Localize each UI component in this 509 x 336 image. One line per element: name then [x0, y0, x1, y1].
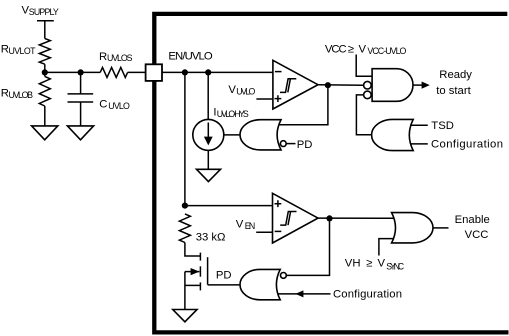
- node EN internal 2: [205, 69, 211, 75]
- resistor RUVLOB: [39, 76, 50, 106]
- wire U6 output down to NOR U5 bubble: [286, 218, 329, 275]
- op-amp U6 EN comparator: [273, 193, 319, 243]
- node EN internal 1: [182, 69, 188, 75]
- wire TSD input: [410, 124, 428, 126]
- node U1 output: [325, 82, 331, 88]
- svg-text:UVLOT: UVLOT: [9, 46, 37, 56]
- wire U1 output: [318, 84, 364, 87]
- svg-text:SUPPLY: SUPPLY: [29, 7, 59, 17]
- wire junction to comparator plus: [185, 205, 273, 207]
- node cap junction: [78, 69, 84, 75]
- resistor 33k: [179, 214, 190, 243]
- svg-text:R: R: [99, 51, 107, 63]
- svg-text:UVLOS: UVLOS: [107, 53, 133, 63]
- svg-text:V: V: [378, 258, 386, 270]
- wire cap node down: [80, 72, 82, 94]
- bubble NOR U5: [281, 273, 287, 279]
- wire cap node to RUVLOS: [81, 71, 101, 73]
- pin EN/UVLO pad: [146, 64, 162, 81]
- bubble NOR U2: [280, 141, 286, 147]
- gate NOR U2 (hysteresis enable, faces left): [240, 120, 281, 150]
- wire RUVLOB to ground: [44, 106, 46, 126]
- wire OR TSD output to AND lower bubble: [356, 95, 372, 135]
- wire VSYNC comparison to OR input: [379, 239, 394, 256]
- svg-text:VH: VH: [345, 258, 361, 270]
- wire VCC comparison to AND input: [356, 55, 372, 77]
- node U6 output: [326, 215, 332, 221]
- wire U6 output to OR gate: [318, 217, 395, 219]
- svg-text:V: V: [359, 44, 367, 56]
- op-amp U1 UVLO comparator: [273, 60, 318, 109]
- wire EN/UVLO to comparator minus: [162, 71, 273, 73]
- svg-text:UVLO-HYS: UVLO-HYS: [217, 109, 249, 119]
- svg-text:Configuration: Configuration: [431, 138, 503, 150]
- svg-text:Enable: Enable: [455, 214, 490, 226]
- resistor RUVLOS: [100, 67, 127, 77]
- resistor RUVLOT: [39, 39, 50, 65]
- svg-text:UVLOB: UVLOB: [9, 90, 34, 100]
- wire RUVLOS to pin: [128, 71, 146, 73]
- svg-text:33 kΩ: 33 kΩ: [196, 231, 226, 243]
- hysteresis symbol U6: [280, 212, 296, 226]
- wire RUVLOT to node: [44, 64, 46, 76]
- wire U3 output arrow: [413, 84, 423, 86]
- Vsupply rail tick: [37, 20, 54, 22]
- gate OR U4 TSD/Configuration (faces left): [372, 119, 414, 150]
- chip boundary box: [154, 14, 508, 333]
- plus sign U6: [275, 200, 282, 207]
- wire U7 output: [433, 227, 449, 229]
- ground under RUVLOB: [32, 126, 58, 140]
- svg-text:V: V: [228, 84, 236, 96]
- gate NOR U5 PD/Configuration (faces left): [240, 269, 280, 299]
- wire PD to NOR U2: [286, 143, 295, 145]
- transistor Q1 pulldown MOSFET: [199, 253, 201, 261]
- wire Vsupply to RUVLOT: [44, 21, 46, 39]
- node divider junction: [42, 69, 48, 75]
- current source IUVLO-HYS: [193, 119, 224, 150]
- capacitor CUVLO: [68, 93, 94, 95]
- svg-text:≥: ≥: [348, 44, 354, 56]
- bubble U3 middle input: [364, 81, 372, 89]
- svg-text:V: V: [236, 218, 244, 230]
- minus sign U1: [275, 71, 282, 73]
- svg-text:EN/UVLO: EN/UVLO: [168, 51, 213, 63]
- bubble U3 lower input: [364, 91, 372, 99]
- and-gate U3 ready logic: [372, 69, 413, 102]
- svg-text:to start: to start: [436, 85, 471, 97]
- wire divider node to cap node: [45, 71, 81, 73]
- wire VUVLO stub to plus input: [256, 98, 273, 100]
- ground under CUVLO: [67, 126, 93, 140]
- svg-text:VCC: VCC: [325, 44, 347, 56]
- svg-text:C: C: [99, 99, 107, 111]
- wire current source to ground: [207, 150, 209, 169]
- svg-text:UVLO: UVLO: [236, 87, 255, 97]
- wire Configuration input (upper): [410, 143, 428, 145]
- wire comparator out down to NOR U2 input: [279, 85, 328, 125]
- minus sign U6: [275, 230, 282, 232]
- plus sign U1: [275, 95, 282, 102]
- svg-text:VCC-UVLO: VCC-UVLO: [367, 46, 406, 56]
- svg-text:Ready: Ready: [439, 69, 472, 81]
- gate OR U7 enable (faces right): [392, 213, 433, 243]
- svg-text:Configuration: Configuration: [333, 288, 402, 300]
- wire MOSFET gate to NOR U5 output: [208, 284, 241, 286]
- node EN lower junction: [182, 203, 188, 209]
- svg-text:PD: PD: [216, 269, 232, 281]
- svg-text:EN: EN: [245, 221, 256, 231]
- wire cap to ground: [80, 102, 82, 126]
- wire VEN stub to minus input: [256, 231, 272, 233]
- svg-text:PD: PD: [297, 139, 313, 151]
- svg-text:SYNC: SYNC: [386, 262, 404, 272]
- wire Configuration input (lower) with arrow: [278, 293, 331, 295]
- svg-text:TSD: TSD: [431, 120, 454, 132]
- svg-text:VCC: VCC: [465, 229, 489, 241]
- wire node2 down to current source: [207, 72, 209, 119]
- ground under current source: [197, 169, 221, 181]
- wire node1 down to lower section: [184, 72, 186, 205]
- wire 33k to MOSFET drain: [185, 243, 201, 257]
- svg-text:≥: ≥: [366, 258, 372, 270]
- hysteresis symbol U1: [280, 79, 296, 93]
- wire current source to NOR U2 output: [224, 134, 241, 136]
- ground under MOSFET: [173, 310, 197, 322]
- svg-text:UVLO: UVLO: [108, 101, 130, 111]
